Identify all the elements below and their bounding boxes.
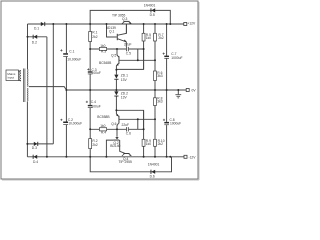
svg-text:1k0: 1k0 <box>146 36 151 40</box>
svg-text:D.4: D.4 <box>33 160 38 164</box>
svg-text:1k0: 1k0 <box>100 124 105 128</box>
svg-text:Q.5: Q.5 <box>111 54 116 58</box>
svg-text:D.2: D.2 <box>32 41 37 45</box>
svg-text:100uF: 100uF <box>91 104 100 108</box>
svg-text:13V: 13V <box>121 96 128 100</box>
svg-text:C.4: C.4 <box>91 100 96 104</box>
svg-text:2k2: 2k2 <box>158 142 163 146</box>
svg-text:10,000uF: 10,000uF <box>68 122 82 126</box>
svg-text:22uF: 22uF <box>124 43 132 47</box>
svg-text:1N4001: 1N4001 <box>148 162 160 166</box>
svg-text:1k0: 1k0 <box>146 142 151 146</box>
svg-text:3k3: 3k3 <box>157 74 162 78</box>
svg-text:C.6: C.6 <box>126 131 131 135</box>
svg-text:Q.6: Q.6 <box>111 122 116 126</box>
svg-text:BC558B: BC558B <box>97 115 110 119</box>
svg-text:C.1: C.1 <box>69 50 74 54</box>
svg-text:TIP 2955: TIP 2955 <box>119 160 132 164</box>
svg-text:C.5: C.5 <box>126 52 131 56</box>
svg-text:22uF: 22uF <box>122 123 130 127</box>
svg-text:13V: 13V <box>121 78 128 82</box>
svg-text:2k2: 2k2 <box>92 143 97 147</box>
svg-text:1k0: 1k0 <box>100 44 105 48</box>
svg-text:2k2: 2k2 <box>158 36 163 40</box>
svg-text:D.6: D.6 <box>150 174 155 178</box>
svg-text:input: input <box>8 76 15 80</box>
svg-text:D.5: D.5 <box>150 13 155 17</box>
svg-text:R.3: R.3 <box>101 50 106 54</box>
svg-text:R.4: R.4 <box>101 130 106 134</box>
svg-text:BD140: BD140 <box>110 144 120 148</box>
svg-text:+12V: +12V <box>187 22 196 26</box>
svg-text:1000uF: 1000uF <box>171 56 182 60</box>
svg-text:10,000uF: 10,000uF <box>67 58 81 62</box>
svg-text:1N4001: 1N4001 <box>144 3 156 7</box>
svg-text:2k2: 2k2 <box>92 35 97 39</box>
svg-text:Q.1: Q.1 <box>109 30 114 34</box>
svg-text:D.3: D.3 <box>32 146 37 150</box>
svg-text:BC548B: BC548B <box>99 61 112 65</box>
svg-text:Q.3: Q.3 <box>122 17 127 21</box>
svg-text:1000uF: 1000uF <box>170 121 181 125</box>
svg-text:3k3: 3k3 <box>157 100 162 104</box>
svg-text:-12V: -12V <box>189 156 197 160</box>
svg-text:100uF: 100uF <box>92 71 101 75</box>
svg-text:D.1: D.1 <box>34 26 39 30</box>
